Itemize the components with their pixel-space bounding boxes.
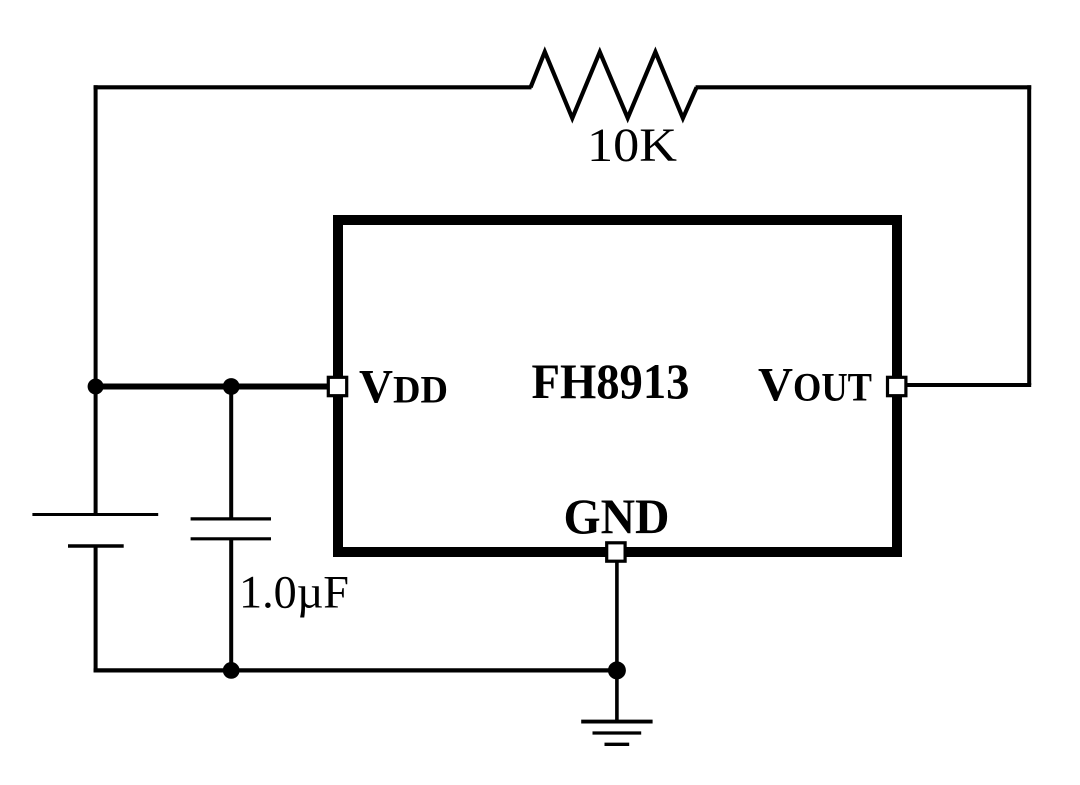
wire: bottom ground rail to ground junction [94,668,617,672]
svg-text:10K: 10K [587,119,677,172]
wire: GND pin vertical down to ground symbol [615,556,619,722]
IC U1 FH8913 body [338,220,897,552]
wire: top rail right segment (resistor to right corner) [696,85,1032,89]
wire: VDD supply rail (thick) from node A to VDD pin [96,384,330,390]
wire: VOUT pin to right vertical [905,383,1031,387]
resistor R1 zigzag [531,52,697,118]
svg-text:VDD: VDD [359,361,448,414]
wire: battery bottom vertical down to bottom rail corner [94,546,98,670]
wire: capacitor bottom vertical (capacitor down to bottom rail) [229,539,233,671]
pin GND terminal square [607,543,625,561]
wire: top rail left segment (node A to resistor) [94,85,532,89]
capacitor C1 top plate [191,517,271,520]
battery BT1 negative plate (short) [68,544,124,547]
battery BT1 positive plate (long) [32,513,158,516]
svg-text:VOUT: VOUT [758,359,872,412]
junction dot node A (battery / VDD rail) [88,379,104,395]
wire: capacitor top vertical (node B down to capacitor) [229,387,233,519]
ground symbol (three bars) [581,722,652,745]
svg-text:GND: GND [564,489,670,544]
capacitor C1 bottom plate [191,537,271,540]
junction dot node B (capacitor / VDD rail) [223,378,240,395]
pin VOUT terminal square [888,377,906,395]
wire: left vertical from top rail down to battery top plate [94,85,98,514]
junction dot node D (ground rail / GND pin) [608,661,626,679]
svg-text:1.0µF: 1.0µF [239,567,349,619]
svg-text:FH8913: FH8913 [532,353,690,409]
junction dot node C (capacitor / bottom rail) [223,662,240,679]
wire: right vertical feedback from top rail down to VOUT level [1027,85,1031,385]
pin VDD terminal square [328,377,346,395]
